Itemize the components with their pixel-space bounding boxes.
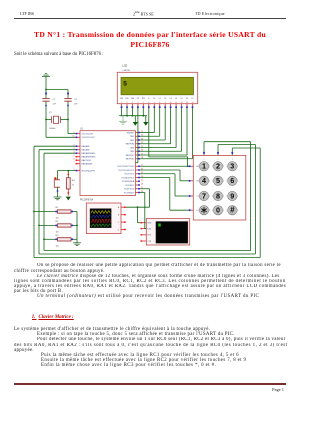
svg-text:PIC16F876A: PIC16F876A <box>80 199 94 202</box>
paragraph 1 <box>14 263 288 268</box>
svg-text:5: 5 <box>73 155 74 157</box>
capacitor C2 <box>64 90 78 120</box>
svg-text:12: 12 <box>181 102 183 104</box>
svg-text:1nF: 1nF <box>74 104 78 106</box>
wire LCD E <box>149 108 189 168</box>
svg-text:9: 9 <box>165 102 166 104</box>
wire RC7 RX to terminal TXD <box>140 193 146 229</box>
resistor R4 <box>66 171 75 196</box>
svg-text:RB4: RB4 <box>130 147 134 149</box>
svg-text:1nF: 1nF <box>53 104 57 106</box>
wire LCD D2 to RB2 <box>140 108 165 141</box>
header rule <box>14 17 286 20</box>
svg-text:R3: R3 <box>56 235 60 237</box>
virtual terminal <box>141 219 190 245</box>
wire crystal top tee <box>45 89 68 91</box>
svg-text:D0: D0 <box>153 98 155 100</box>
svg-text:RB3/PGM: RB3/PGM <box>125 144 134 146</box>
keypad 4x3 <box>189 155 246 220</box>
svg-text:8: 8 <box>216 191 220 200</box>
svg-text:RC4/SDI/SDA: RC4/SDI/SDA <box>122 180 135 183</box>
svg-text:TXD: TXD <box>147 229 151 231</box>
wire RC3 row D <box>140 178 189 211</box>
svg-text:1: 1 <box>121 102 122 104</box>
page number <box>250 387 284 392</box>
svg-text:2: 2 <box>127 102 128 104</box>
svg-text:RB0/INT: RB0/INT <box>127 132 135 134</box>
svg-text:RC3/SCK/SCL: RC3/SCK/SCL <box>122 177 134 179</box>
svg-text:RB7/PGD: RB7/PGD <box>126 159 135 161</box>
svg-text:RB6/PGC: RB6/PGC <box>126 155 135 157</box>
wire LCD power bus <box>119 108 147 117</box>
svg-text:16MHz: 16MHz <box>49 128 55 130</box>
LCD LM016L <box>117 64 197 108</box>
svg-text:4: 4 <box>137 102 138 104</box>
wire LCD D6 to RB6 <box>140 108 187 156</box>
svg-text:D3: D3 <box>170 98 172 100</box>
svg-text:RC1/T1OSI/CCP2: RC1/T1OSI/CCP2 <box>119 170 134 172</box>
svg-text:U1: U1 <box>80 128 84 130</box>
svg-text:4: 4 <box>202 176 206 185</box>
resistor R2 <box>39 221 77 234</box>
svg-text:R2: R2 <box>56 221 60 223</box>
svg-text:LCD: LCD <box>123 64 128 67</box>
svg-text:4: 4 <box>73 152 74 154</box>
svg-text:R1: R1 <box>56 207 60 209</box>
ground (crystal circuit top) <box>42 74 50 90</box>
svg-text:R4: R4 <box>72 180 76 182</box>
svg-text:15: 15 <box>141 180 143 182</box>
svg-text:OSC2/CLKOUT: OSC2/CLKOUT <box>82 137 96 139</box>
wire LCD D5 to RB5 <box>140 108 182 152</box>
svg-text:#: # <box>230 206 235 215</box>
push button (reset) <box>54 171 60 195</box>
svg-text:X1: X1 <box>49 112 52 114</box>
svg-text:C1: C1 <box>53 99 57 101</box>
svg-text:10: 10 <box>170 102 172 104</box>
svg-text:1: 1 <box>73 169 74 171</box>
wire RC0 row A <box>140 165 189 167</box>
svg-text:RC6/TX/CK: RC6/TX/CK <box>124 189 135 191</box>
svg-text:RXD: RXD <box>147 223 152 225</box>
svg-text:RC5/SDO: RC5/SDO <box>126 185 135 187</box>
wire resistor common <box>76 212 78 240</box>
svg-text:RC0/T1OSO/T1CKI: RC0/T1OSO/T1CKI <box>117 166 134 168</box>
wire LCD D0 to RB0 <box>140 108 154 133</box>
svg-text:10k: 10k <box>56 245 59 247</box>
svg-text:7: 7 <box>202 191 206 200</box>
intro line <box>14 52 104 57</box>
ground (LCD, pale) <box>119 116 127 124</box>
svg-text:RA3/AN3/VREF+: RA3/AN3/VREF+ <box>82 156 97 159</box>
svg-text:10k: 10k <box>56 218 59 220</box>
svg-text:D6: D6 <box>186 98 188 100</box>
svg-text:C2: C2 <box>74 99 78 101</box>
svg-text:2: 2 <box>218 159 219 161</box>
svg-text:3: 3 <box>132 102 133 104</box>
svg-text:RA4/T0CKI: RA4/T0CKI <box>82 159 92 162</box>
resistor R1 <box>34 207 77 220</box>
svg-text:13: 13 <box>186 102 188 104</box>
svg-text:9: 9 <box>73 132 74 134</box>
svg-text:16: 16 <box>141 183 143 185</box>
svg-text:D4: D4 <box>175 98 177 100</box>
svg-text:RC7/RX/DT: RC7/RX/DT <box>124 192 135 194</box>
wire LCD D4 to RB4 <box>140 108 176 148</box>
ground (resistors) <box>73 239 81 245</box>
resistor R3 <box>44 235 77 248</box>
svg-text:5: 5 <box>216 176 220 185</box>
ground (button) <box>54 194 62 200</box>
svg-text:D7: D7 <box>191 98 193 100</box>
svg-text:5: 5 <box>143 102 144 104</box>
paragraph 2 <box>14 327 210 332</box>
svg-text:6: 6 <box>73 159 74 161</box>
wire OSC1 <box>68 120 76 134</box>
svg-text:RA0/AN0: RA0/AN0 <box>82 145 90 148</box>
svg-text:RC2/CCP1: RC2/CCP1 <box>125 174 134 176</box>
svg-text:1: 1 <box>202 162 206 171</box>
svg-text:5: 5 <box>123 80 127 87</box>
svg-text:1: 1 <box>204 159 205 161</box>
svg-text:RA5/AN4/SS: RA5/AN4/SS <box>82 163 94 166</box>
section heading <box>32 315 74 320</box>
svg-text:RB2: RB2 <box>130 140 134 142</box>
svg-text:LM016L: LM016L <box>123 70 132 72</box>
svg-text:11: 11 <box>175 102 177 104</box>
footer rule <box>14 383 286 385</box>
svg-text:RA1/AN1: RA1/AN1 <box>82 149 90 152</box>
svg-text:6: 6 <box>148 102 149 104</box>
svg-text:14: 14 <box>192 102 194 104</box>
wire OSC2 <box>46 120 76 138</box>
svg-text:7: 7 <box>154 102 155 104</box>
wire MCLR <box>58 170 76 172</box>
capacitor C1 <box>42 90 56 120</box>
svg-text:OSC1/CLKIN: OSC1/CLKIN <box>82 134 94 136</box>
svg-text:6: 6 <box>230 176 234 185</box>
svg-text:10k: 10k <box>56 232 59 234</box>
title <box>0 31 300 39</box>
header left <box>20 11 34 16</box>
svg-text:RA2/AN2/VREF-: RA2/AN2/VREF- <box>82 152 96 155</box>
wire LCD D7 to RB7 <box>140 108 193 159</box>
svg-text:2: 2 <box>216 162 220 171</box>
wire RA1 net (keypad column 2) <box>38 145 255 255</box>
power arrow 2 (LCD) <box>143 116 148 126</box>
svg-text:RB1: RB1 <box>130 136 134 138</box>
wire RA2 net (keypad column 1) <box>43 142 251 251</box>
svg-text:RB5: RB5 <box>130 151 134 153</box>
crystal X1 <box>45 112 69 130</box>
svg-text:3: 3 <box>230 162 234 171</box>
wire RC1 row B <box>140 170 189 181</box>
header center <box>133 11 154 16</box>
svg-text:3: 3 <box>232 159 233 161</box>
wire RA0 net (keypad column 3) <box>33 146 260 257</box>
oscilloscope <box>86 203 126 234</box>
wire LCD RS <box>136 108 138 163</box>
svg-text:10: 10 <box>72 136 74 138</box>
svg-text:D2: D2 <box>164 98 166 100</box>
svg-text:MCLR/Vpp/THV: MCLR/Vpp/THV <box>82 171 96 173</box>
op-amp U1 PIC16F876 <box>72 128 143 201</box>
svg-text:RW: RW <box>142 98 145 100</box>
svg-text:8: 8 <box>159 102 160 104</box>
svg-text:3: 3 <box>73 148 74 150</box>
wire RC2 row C <box>140 174 189 196</box>
svg-text:2: 2 <box>73 145 74 147</box>
power arrow (LCD) <box>133 116 138 126</box>
power arrow (below R4) <box>66 197 71 201</box>
svg-text:D1: D1 <box>159 98 161 100</box>
svg-text:7: 7 <box>73 162 74 164</box>
svg-text:1k: 1k <box>72 184 74 186</box>
wire RC6 TX to scope and terminal RXD <box>126 189 150 223</box>
svg-text:9: 9 <box>230 191 234 200</box>
header right <box>195 11 225 16</box>
wire LCD D1 to RB1 <box>140 108 160 137</box>
svg-text:0: 0 <box>216 206 220 215</box>
svg-text:D5: D5 <box>181 98 183 100</box>
wire LCD D3 to RB3 <box>140 108 171 144</box>
